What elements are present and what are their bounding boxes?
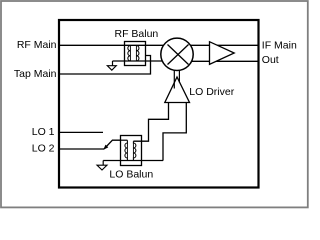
wire IF bottom [177,60,258,62]
RF balun winding spines [130,46,136,61]
svg-text:IF Main: IF Main [262,39,297,51]
svg-text:RF Balun: RF Balun [115,28,159,40]
wire LO balun bottom line to ground [103,160,163,162]
svg-text:Out: Out [262,54,279,66]
wire LO driver right input staircase [163,103,186,161]
op-amp IF output amplifier (triangle) [210,42,235,65]
LO balun box [121,136,142,166]
RF balun right winding [136,46,139,61]
mixer-driver stem right [178,70,180,82]
ground (RF balun) [112,61,114,66]
svg-text:LO Driver: LO Driver [189,86,234,98]
RF balun box [125,42,146,66]
wire LO2 diagonal to LO balun [104,140,121,149]
svg-text:LO 2: LO 2 [32,143,55,155]
RF balun left winding [128,46,131,61]
wire LO 1 stub [59,131,103,133]
mixer (circle with X) [161,38,193,70]
ground (LO balun) [102,161,104,166]
mixer-driver stem left [173,70,175,88]
mixer X [168,45,189,65]
op-amp LO Driver (triangle, pointing up) [165,77,190,103]
wire RF Main input [59,44,177,46]
wire Tap Main to RF balun secondary [59,56,151,75]
svg-text:LO Balun: LO Balun [109,169,153,181]
LO balun left winding [125,140,127,160]
svg-text:LO 1: LO 1 [32,126,55,138]
inner block boundary box [59,20,259,188]
wire RF balun lower / ground branch to mixer [113,60,178,62]
svg-text:RF Main: RF Main [17,39,57,51]
wire LO 2 [59,148,104,150]
LO balun left top port [121,139,128,141]
wire LO driver left input staircase [133,103,168,142]
wire IF top (mixer to amp to edge) [177,44,258,46]
arrowhead on LO2 [103,145,108,150]
LO balun right winding [133,141,136,160]
LO balun winding spines [127,143,133,158]
svg-text:Tap Main: Tap Main [14,68,57,80]
